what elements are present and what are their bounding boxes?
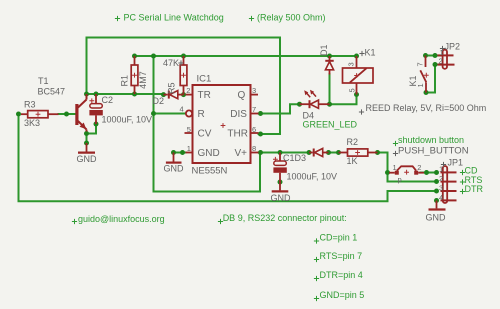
label RTS=pin 7 bbox=[314, 251, 362, 262]
label JP2 pin numbers bbox=[439, 48, 444, 66]
label (Relay 500 Ohm) bbox=[249, 12, 326, 22]
wire LED node to relay coil bottom bbox=[330, 95, 357, 105]
node R5 top bbox=[181, 54, 186, 59]
node base bbox=[64, 112, 69, 117]
node R2 left bbox=[336, 150, 341, 155]
svg-text:NE555N: NE555N bbox=[192, 166, 228, 177]
svg-text:THR: THR bbox=[227, 129, 248, 140]
svg-text:C2: C2 bbox=[102, 95, 114, 105]
node R2 right bbox=[375, 150, 380, 155]
svg-text:C1D3: C1D3 bbox=[283, 153, 306, 163]
label JP1 bbox=[441, 158, 463, 168]
node pin8 bbox=[258, 150, 263, 155]
wire V+ row pin 8 to D3 bbox=[259, 152, 310, 154]
label 7 switch rotated bbox=[416, 62, 425, 66]
svg-text:R2: R2 bbox=[347, 137, 359, 147]
svg-text:K1: K1 bbox=[365, 48, 376, 58]
svg-text:1000uF, 10V: 1000uF, 10V bbox=[102, 115, 153, 125]
pin labels inside IC bbox=[198, 90, 248, 159]
node rail x153 bbox=[151, 54, 156, 59]
label 5 coil rotated bbox=[348, 88, 357, 92]
label K1 switch rotated bbox=[408, 75, 418, 86]
svg-text:7: 7 bbox=[416, 62, 425, 66]
svg-text:GND=pin 5: GND=pin 5 bbox=[320, 290, 365, 300]
wire collector row to R1 bottom and D2 anode bbox=[87, 93, 164, 95]
label D1 rotated bbox=[319, 44, 329, 56]
label 47K bbox=[163, 58, 184, 68]
svg-text:GND: GND bbox=[77, 154, 98, 164]
node R3 corner bbox=[16, 112, 21, 117]
label C2 bbox=[102, 95, 114, 105]
pin 4 bubble bbox=[186, 110, 192, 116]
svg-text:PC Serial Line Watchdog: PC Serial Line Watchdog bbox=[124, 12, 224, 22]
node JP1 pin2 bbox=[434, 179, 439, 184]
svg-text:JP2: JP2 bbox=[445, 42, 461, 52]
svg-text:BC547: BC547 bbox=[38, 87, 66, 97]
svg-text:7: 7 bbox=[252, 105, 256, 114]
label CD=pin 1 bbox=[314, 233, 357, 244]
svg-text:Q: Q bbox=[238, 90, 246, 101]
label DB 9 pinout bbox=[218, 213, 347, 224]
label GREEN_LED bbox=[303, 120, 358, 130]
svg-text:R5: R5 bbox=[167, 82, 177, 94]
label button pin 1 bbox=[393, 163, 397, 172]
push button S1 bbox=[389, 166, 424, 174]
op-amp U1 (IC1 NE555N box) bbox=[193, 85, 251, 163]
node emitter gnd bbox=[84, 141, 89, 146]
svg-text:D2: D2 bbox=[153, 96, 165, 106]
resistor R3 bbox=[21, 111, 59, 118]
wire push button to JP1 pin1 bbox=[421, 172, 437, 174]
wire DTR rail from R3 left down along left edge and bottom to JP1 pin3 bbox=[19, 114, 437, 201]
svg-text:PUSH_BUTTON: PUSH_BUTTON bbox=[398, 146, 469, 157]
diode D2 bbox=[164, 91, 184, 99]
relay coil K1 bbox=[343, 56, 374, 95]
svg-text:5: 5 bbox=[348, 88, 357, 92]
svg-text:8: 8 bbox=[252, 144, 256, 153]
label R1 rotated bbox=[119, 75, 129, 87]
node D2 anode-side bbox=[161, 92, 166, 97]
svg-text:1: 1 bbox=[416, 83, 425, 87]
svg-text:1: 1 bbox=[393, 163, 397, 172]
label JP1 pin numbers bbox=[439, 165, 443, 203]
svg-text:GND: GND bbox=[198, 148, 220, 159]
label 4M7 rotated bbox=[138, 71, 148, 89]
resistor R5 bbox=[180, 56, 187, 95]
node button pin2 bbox=[424, 170, 429, 175]
svg-text:D1: D1 bbox=[319, 44, 329, 56]
node button pin1 bbox=[385, 170, 390, 175]
wire JP2 pin2 to K1 switch pin1 bbox=[426, 65, 438, 93]
svg-text:CD: CD bbox=[465, 166, 478, 176]
label REED Relay bbox=[359, 103, 486, 115]
svg-text:2: 2 bbox=[439, 174, 443, 183]
label 1000uF, 10V (C1) bbox=[287, 172, 338, 182]
resistor R1 bbox=[131, 56, 138, 94]
node switch pin7 bbox=[423, 53, 428, 58]
wire emitter to GND bbox=[86, 131, 88, 143]
capacitor C2 bbox=[89, 94, 102, 124]
svg-text:IC1: IC1 bbox=[197, 74, 212, 85]
wire 555 pin 7 DIS to LED bbox=[259, 104, 300, 113]
label CD bbox=[460, 166, 478, 176]
svg-text:47K: 47K bbox=[163, 58, 179, 68]
node pin7 bbox=[258, 111, 263, 116]
label DTR bbox=[460, 184, 484, 194]
pin 6 stub bbox=[251, 132, 259, 134]
node switch pin1 bbox=[424, 90, 429, 95]
node collector bbox=[84, 92, 89, 97]
svg-text:5: 5 bbox=[187, 125, 191, 134]
node R1 top bbox=[132, 54, 137, 59]
label K1 coil bbox=[359, 48, 375, 58]
node C1 bottom bbox=[278, 180, 283, 185]
label GND=pin 5 bbox=[314, 290, 364, 301]
node C1 top bbox=[278, 150, 283, 155]
svg-text:R1: R1 bbox=[119, 75, 129, 87]
wire C2 bottom to emitter bbox=[87, 124, 97, 134]
label 1 switch rotated bbox=[416, 83, 425, 87]
label GND under C1 bbox=[271, 193, 292, 203]
label R3 bbox=[24, 100, 36, 110]
node pin6 bbox=[258, 132, 263, 137]
node pin4 wire bbox=[151, 111, 156, 116]
connector JP2 bbox=[438, 50, 455, 69]
label 1000uF, 10V (C2) bbox=[102, 115, 153, 125]
label D4 bbox=[303, 111, 315, 121]
label 3 coil rotated bbox=[347, 62, 356, 66]
svg-text:guido@linuxfocus.org: guido@linuxfocus.org bbox=[78, 214, 165, 224]
node K1 coil top bbox=[354, 54, 359, 59]
wire collector loop up over top to THR pin 6 bbox=[87, 38, 281, 135]
label IC1 bbox=[197, 74, 212, 85]
svg-text:TR: TR bbox=[198, 90, 211, 101]
pin 7 stub bbox=[251, 113, 259, 115]
pin 2 stub bbox=[186, 94, 193, 96]
node JP1 pin4 bbox=[434, 198, 439, 203]
label R2 bbox=[347, 137, 359, 147]
label button p bbox=[398, 175, 402, 184]
label RTS bbox=[460, 175, 482, 185]
svg-text:3: 3 bbox=[252, 86, 256, 95]
LED D4 GREEN_LED bbox=[300, 90, 330, 109]
wire D3 to R2 bbox=[329, 152, 339, 154]
svg-text:REED Relay, 5V, Ri=500 Ohm: REED Relay, 5V, Ri=500 Ohm bbox=[366, 103, 487, 113]
label guido@linuxfocus.org bbox=[72, 214, 165, 224]
pin 1 stub bbox=[186, 152, 193, 154]
node TR pin2 bbox=[181, 92, 186, 97]
connector JP1 bbox=[441, 166, 457, 203]
svg-text:V+: V+ bbox=[235, 148, 248, 159]
node LED cathode D1 bbox=[327, 102, 332, 107]
svg-text:3: 3 bbox=[347, 62, 356, 66]
node pin1 gnd bbox=[171, 150, 176, 155]
capacitor C1 bbox=[273, 153, 287, 183]
svg-text:RTS=pin 7: RTS=pin 7 bbox=[320, 251, 363, 261]
label JP2 bbox=[440, 42, 460, 52]
label NE555N bbox=[192, 166, 228, 177]
wire 555 pin 1 to GND bbox=[174, 152, 186, 154]
svg-text:GREEN_LED: GREEN_LED bbox=[303, 120, 358, 130]
node JP1 pin3 bbox=[434, 189, 439, 194]
reed switch K1 contact bbox=[420, 56, 428, 93]
node jp2 pin1 wire bbox=[433, 53, 438, 58]
ground under T1 bbox=[78, 143, 95, 153]
svg-text:T1: T1 bbox=[38, 76, 49, 86]
svg-text:CV: CV bbox=[198, 129, 212, 140]
svg-text:1K: 1K bbox=[347, 156, 358, 166]
svg-text:CD=pin 1: CD=pin 1 bbox=[320, 233, 358, 243]
pin 3 stub bbox=[251, 94, 259, 96]
node D1 top bbox=[327, 54, 332, 59]
svg-text:4: 4 bbox=[439, 193, 443, 202]
transistor T1 BC547 bbox=[75, 94, 86, 132]
svg-text:R3: R3 bbox=[24, 100, 36, 110]
label DTR=pin 4 bbox=[314, 270, 363, 281]
wire R2 to push button and JP1 pin2 bbox=[378, 153, 437, 182]
resistor R2 bbox=[339, 149, 378, 156]
ground under IC pin1 bbox=[166, 153, 182, 163]
svg-text:3: 3 bbox=[439, 184, 443, 193]
diode D1 bbox=[325, 56, 333, 75]
label GND under JP1 bbox=[426, 213, 447, 223]
wire K1 switch pin7 to JP2 pin1 bbox=[426, 55, 443, 57]
pin 8 stub bbox=[251, 152, 259, 154]
svg-text:3K3: 3K3 bbox=[24, 118, 40, 128]
node LED anode bbox=[297, 102, 302, 107]
label 3K3 bbox=[24, 118, 40, 128]
label PUSH_BUTTON bbox=[393, 146, 469, 157]
node D3 left bbox=[307, 150, 312, 155]
ground under JP1 bbox=[429, 201, 446, 210]
label 1K bbox=[347, 156, 358, 166]
svg-text:p: p bbox=[398, 175, 402, 184]
svg-text:JP1: JP1 bbox=[448, 158, 464, 168]
label T1 bbox=[38, 76, 49, 86]
node emitter junction bbox=[84, 131, 89, 136]
ground under C1 bbox=[272, 182, 289, 191]
label C1D3 bbox=[283, 153, 306, 163]
wire V+ rail R1 top to K1 coil bbox=[135, 55, 357, 57]
pin 5 stub bbox=[185, 132, 193, 134]
svg-text:4: 4 bbox=[180, 105, 184, 114]
label R5 rotated bbox=[167, 82, 177, 94]
svg-text:shutdown button: shutdown button bbox=[398, 135, 464, 145]
svg-text:2: 2 bbox=[439, 57, 443, 66]
node coil bottom bbox=[354, 92, 359, 97]
svg-text:2: 2 bbox=[186, 86, 190, 95]
svg-text:DIS: DIS bbox=[230, 109, 247, 120]
svg-text:2: 2 bbox=[417, 163, 421, 172]
node C2 bottom bbox=[94, 122, 99, 127]
node jp2 pin2 wire bbox=[433, 62, 438, 67]
node pin1 stub bbox=[180, 150, 185, 155]
label shutdown button bbox=[393, 135, 464, 146]
wire R3 to T1 base bbox=[59, 113, 76, 115]
label BC547 bbox=[38, 87, 66, 97]
svg-text:GND: GND bbox=[164, 164, 185, 174]
svg-text:DTR=pin 4: DTR=pin 4 bbox=[320, 270, 363, 280]
svg-text:GND: GND bbox=[426, 213, 447, 223]
svg-text:DB 9, RS232 connector pinout:: DB 9, RS232 connector pinout: bbox=[223, 213, 347, 223]
svg-text:6: 6 bbox=[252, 125, 256, 134]
wire to 555 pin 4 R bbox=[154, 113, 186, 115]
svg-text:1: 1 bbox=[439, 165, 443, 174]
label GND under T1 bbox=[77, 154, 98, 164]
svg-text:1: 1 bbox=[187, 144, 191, 153]
label button pin 2 bbox=[417, 163, 421, 172]
pin numbers bbox=[180, 86, 257, 153]
node D3 right bbox=[326, 150, 331, 155]
node R1 bottom bbox=[132, 92, 137, 97]
svg-text:GND: GND bbox=[271, 193, 292, 203]
label D2 bbox=[153, 96, 165, 106]
svg-text:DTR: DTR bbox=[465, 184, 484, 194]
node JP1 pin1 bbox=[434, 170, 439, 175]
diode D3 bbox=[309, 148, 329, 156]
svg-text:(Relay 500 Ohm): (Relay 500 Ohm) bbox=[257, 12, 326, 22]
node C2 top bbox=[94, 92, 99, 97]
svg-text:R: R bbox=[198, 109, 205, 120]
label GND under IC bbox=[164, 164, 185, 174]
svg-text:1000uF, 10V: 1000uF, 10V bbox=[287, 172, 338, 182]
wire V+ vertical from rail down past pin4 to bottom loop bbox=[154, 56, 261, 192]
svg-text:4M7: 4M7 bbox=[138, 71, 148, 89]
wire D1 bottom node bbox=[329, 74, 331, 104]
label title PC Serial Line Watchdog bbox=[115, 12, 224, 22]
